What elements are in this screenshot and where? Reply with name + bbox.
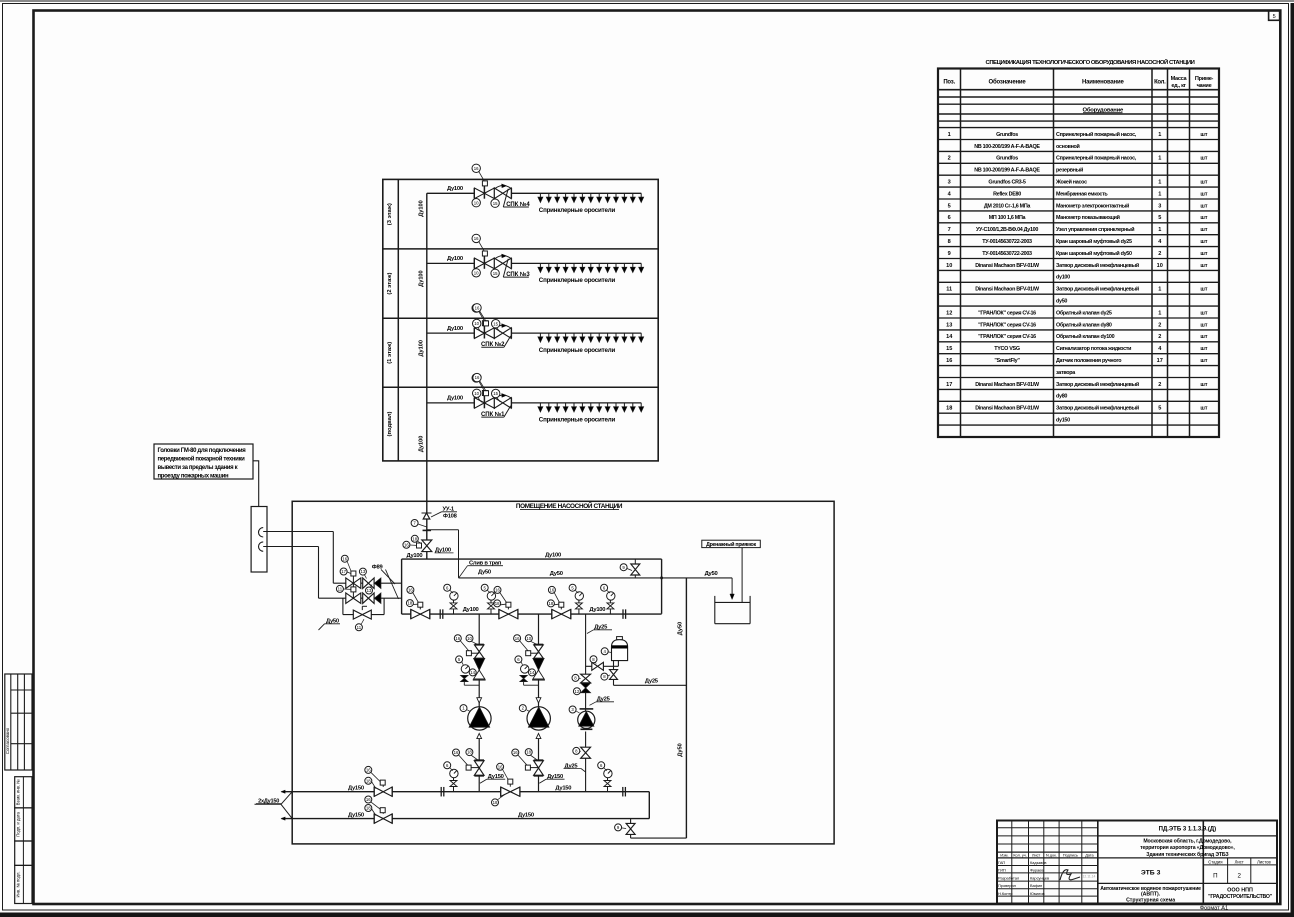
svg-text:17: 17 — [1157, 358, 1163, 364]
svg-text:Карсунцев: Карсунцев — [1030, 875, 1049, 880]
svg-text:10: 10 — [946, 263, 952, 269]
svg-text:(2 этаж): (2 этаж) — [387, 273, 393, 295]
svg-text:1: 1 — [1158, 132, 1161, 138]
svg-text:11: 11 — [357, 625, 362, 630]
svg-text:Ду25: Ду25 — [645, 678, 659, 684]
svg-text:шт: шт — [1200, 346, 1207, 352]
svg-text:Ду100: Ду100 — [419, 200, 425, 217]
svg-text:Взам. инв. №: Взам. инв. № — [16, 779, 21, 805]
svg-text:Ду100: Ду100 — [447, 256, 463, 262]
svg-text:шт: шт — [1200, 334, 1207, 340]
svg-text:ТУ-00145630722-2003: ТУ-00145630722-2003 — [982, 251, 1032, 257]
svg-text:Подп. и дата: Подп. и дата — [16, 811, 21, 836]
svg-text:ПД.ЭТБ 3 1.1.3.9.(Д): ПД.ЭТБ 3 1.1.3.9.(Д) — [1159, 827, 1216, 833]
svg-text:dy150: dy150 — [1056, 418, 1070, 424]
svg-text:2: 2 — [1158, 322, 1161, 328]
svg-text:Dinansi Machaon BFV-01/W: Dinansi Machaon BFV-01/W — [975, 287, 1040, 293]
svg-text:2: 2 — [1158, 251, 1161, 257]
svg-text:18: 18 — [495, 601, 500, 606]
svg-text:шт: шт — [1200, 203, 1207, 209]
svg-text:вывести за пределы здания к: вывести за пределы здания к — [158, 465, 238, 471]
svg-text:12.11.14: 12.11.14 — [1083, 875, 1096, 879]
svg-text:15: 15 — [493, 271, 498, 276]
svg-text:Ду100: Ду100 — [419, 340, 425, 357]
svg-text:"ГРАНЛОК" серия CV-16: "ГРАНЛОК" серия CV-16 — [978, 322, 1036, 328]
svg-text:10: 10 — [474, 270, 479, 275]
svg-text:ООО НПП: ООО НПП — [1227, 888, 1253, 894]
svg-text:Оборудование: Оборудование — [1082, 106, 1124, 113]
svg-text:Ду100: Ду100 — [407, 553, 423, 559]
svg-text:шт: шт — [1200, 156, 1207, 162]
svg-text:Обратный клапан dy100: Обратный клапан dy100 — [1056, 333, 1115, 340]
svg-text:Обозначение: Обозначение — [988, 78, 1026, 85]
svg-text:(1 этаж): (1 этаж) — [387, 342, 393, 364]
svg-text:Ф89: Ф89 — [372, 564, 384, 570]
svg-text:Спринклерный пожарный насос,: Спринклерный пожарный насос, — [1056, 155, 1137, 162]
svg-text:основной: основной — [1056, 143, 1080, 150]
svg-text:шт: шт — [1200, 322, 1207, 328]
svg-text:17: 17 — [946, 382, 952, 388]
svg-text:5: 5 — [1158, 406, 1161, 412]
svg-text:2: 2 — [1237, 872, 1241, 879]
svg-text:N док.: N док. — [1046, 853, 1057, 857]
svg-text:Ду50: Ду50 — [677, 743, 683, 756]
svg-text:Подпись: Подпись — [1063, 853, 1078, 857]
svg-text:Grundfos CR3-5: Grundfos CR3-5 — [988, 180, 1025, 186]
svg-text:16: 16 — [946, 358, 952, 364]
svg-text:Ду100: Ду100 — [447, 186, 463, 192]
svg-text:Мембранная емкость: Мембранная емкость — [1056, 190, 1108, 197]
svg-text:Головки ГМ-80 для подключения: Головки ГМ-80 для подключения — [158, 448, 247, 454]
svg-text:14: 14 — [470, 670, 475, 675]
svg-text:Ду50: Ду50 — [478, 569, 491, 575]
svg-text:10: 10 — [474, 321, 479, 326]
svg-text:Кол. уч.: Кол. уч. — [1013, 853, 1027, 857]
svg-text:18: 18 — [526, 750, 531, 755]
svg-text:16: 16 — [474, 236, 479, 241]
svg-text:Ду50: Ду50 — [677, 622, 683, 635]
svg-text:проезду пожарных машин: проезду пожарных машин — [158, 474, 229, 480]
svg-text:(подвал): (подвал) — [387, 411, 393, 436]
svg-text:шт: шт — [1200, 180, 1207, 186]
svg-text:П: П — [1213, 872, 1217, 879]
svg-text:16: 16 — [366, 797, 371, 802]
svg-text:9: 9 — [948, 251, 951, 257]
svg-text:Спринклерные оросители: Спринклерные оросители — [539, 277, 616, 284]
svg-text:Юматов: Юматов — [1030, 891, 1045, 896]
svg-text:14: 14 — [946, 334, 953, 340]
svg-text:11: 11 — [946, 287, 952, 293]
svg-text:Н.Контр: Н.Контр — [998, 891, 1012, 896]
svg-text:Наименование: Наименование — [1082, 79, 1124, 85]
svg-text:шт: шт — [1200, 287, 1207, 293]
svg-text:Ду100: Ду100 — [463, 607, 479, 613]
svg-text:Вафин: Вафин — [1030, 883, 1042, 888]
svg-text:шт: шт — [1200, 263, 1207, 269]
svg-text:передвижной пожарной техники: передвижной пожарной техники — [158, 455, 246, 462]
svg-text:16: 16 — [498, 764, 503, 769]
svg-text:16: 16 — [342, 556, 347, 561]
svg-text:15: 15 — [493, 321, 498, 326]
svg-text:12: 12 — [575, 689, 580, 694]
svg-text:NB 100-200/199 A-F-A-BAQE: NB 100-200/199 A-F-A-BAQE — [974, 168, 1040, 174]
svg-text:Фураев: Фураев — [1030, 868, 1043, 873]
svg-text:шт: шт — [1200, 358, 1207, 364]
svg-text:16: 16 — [404, 542, 409, 547]
svg-text:Стадия: Стадия — [1208, 859, 1222, 864]
svg-text:ДМ 2010 Сг-1,6 МПа: ДМ 2010 Сг-1,6 МПа — [984, 203, 1032, 209]
svg-text:Датчик положения ручного: Датчик положения ручного — [1056, 358, 1122, 364]
svg-text:Ду100: Ду100 — [545, 552, 561, 558]
svg-text:13: 13 — [361, 569, 366, 574]
svg-text:Dinansi Machaon BFV-01/W: Dinansi Machaon BFV-01/W — [975, 263, 1040, 269]
svg-text:ГИП: ГИП — [998, 868, 1006, 873]
svg-text:7: 7 — [948, 227, 951, 233]
svg-text:МП 100 1,6 МПа: МП 100 1,6 МПа — [989, 215, 1027, 221]
svg-text:ГАП: ГАП — [998, 860, 1005, 865]
svg-text:СПЕЦИФИКАЦИЯ ТЕХНОЛОГИЧЕСКОГО: СПЕЦИФИКАЦИЯ ТЕХНОЛОГИЧЕСКОГО ОБОРУДОВАН… — [986, 58, 1195, 66]
svg-text:1: 1 — [948, 132, 951, 138]
svg-text:УУ-С100/1,2В-ВФ.04 Ду100: УУ-С100/1,2В-ВФ.04 Ду100 — [976, 227, 1038, 233]
svg-text:11: 11 — [338, 587, 343, 592]
svg-text:15: 15 — [493, 201, 498, 206]
svg-text:1: 1 — [1158, 287, 1161, 293]
svg-text:Обратный клапан dy25: Обратный клапан dy25 — [1056, 309, 1112, 316]
svg-text:Спринклерный пожарный насос,: Спринклерный пожарный насос, — [1056, 131, 1137, 138]
svg-text:Согласовано: Согласовано — [5, 727, 10, 754]
svg-text:16: 16 — [454, 750, 459, 755]
svg-text:1: 1 — [1158, 310, 1161, 316]
svg-text:8: 8 — [948, 239, 951, 245]
svg-text:шт: шт — [1200, 310, 1207, 316]
svg-text:Кран шаровый муфтовый dy25: Кран шаровый муфтовый dy25 — [1056, 238, 1132, 245]
svg-text:(3 этаж): (3 этаж) — [387, 203, 393, 225]
svg-text:dy100: dy100 — [1056, 275, 1070, 281]
svg-text:15: 15 — [946, 346, 952, 352]
svg-text:Узел управления спринклерный: Узел управления спринклерный — [1056, 226, 1134, 233]
svg-text:NB 100-200/199 A-F-A-BAQE: NB 100-200/199 A-F-A-BAQE — [974, 144, 1040, 150]
svg-text:Инв. № подл.: Инв. № подл. — [16, 871, 21, 897]
svg-text:Обратный клапан dy80: Обратный клапан dy80 — [1056, 321, 1112, 328]
svg-text:18: 18 — [408, 601, 413, 606]
svg-text:Лист: Лист — [1235, 859, 1244, 864]
svg-text:Ф108: Ф108 — [443, 514, 458, 520]
svg-text:Grundfos: Grundfos — [996, 156, 1018, 162]
svg-text:Московская область, г.Домодедо: Московская область, г.Домодедово, — [1143, 837, 1232, 844]
svg-text:17: 17 — [341, 569, 346, 574]
svg-text:Изм.: Изм. — [1000, 853, 1008, 857]
svg-text:16: 16 — [475, 375, 480, 380]
svg-text:Reflex DE80: Reflex DE80 — [993, 191, 1021, 197]
svg-text:10: 10 — [474, 391, 479, 396]
svg-text:Поз.: Поз. — [943, 79, 955, 85]
svg-text:Затвор дисковый межфланцевый: Затвор дисковый межфланцевый — [1056, 286, 1139, 293]
svg-text:Ду150: Ду150 — [348, 812, 364, 818]
svg-text:шт: шт — [1200, 191, 1207, 197]
svg-text:Дата: Дата — [1085, 853, 1094, 857]
svg-text:Спринклерные оросители: Спринклерные оросители — [539, 417, 616, 424]
svg-text:Ду100: Ду100 — [419, 270, 425, 287]
svg-text:5: 5 — [948, 203, 951, 209]
svg-text:13: 13 — [946, 322, 952, 328]
svg-text:18: 18 — [549, 601, 554, 606]
svg-text:"ГРАНЛОК" серия CV-16: "ГРАНЛОК" серия CV-16 — [978, 310, 1036, 316]
svg-text:Листов: Листов — [1257, 859, 1271, 864]
svg-text:12: 12 — [946, 310, 952, 316]
svg-text:шт: шт — [1200, 406, 1207, 412]
svg-text:10: 10 — [1157, 263, 1163, 269]
svg-text:"ГРАДОСТРОИТЕЛЬСТВО": "ГРАДОСТРОИТЕЛЬСТВО" — [1208, 894, 1273, 900]
svg-text:Затвор дисковый межфланцевый: Затвор дисковый межфланцевый — [1056, 262, 1139, 269]
svg-text:18: 18 — [946, 406, 952, 412]
svg-text:16: 16 — [495, 588, 500, 593]
svg-text:Ду100: Ду100 — [447, 396, 463, 402]
svg-text:10: 10 — [467, 636, 472, 641]
svg-text:16: 16 — [455, 636, 460, 641]
svg-text:территория аэропорта «Домодедо: территория аэропорта «Домодедово», — [1140, 845, 1235, 851]
svg-text:18: 18 — [493, 800, 498, 805]
svg-text:6: 6 — [948, 215, 951, 221]
svg-text:1: 1 — [1158, 227, 1161, 233]
svg-text:2: 2 — [1158, 334, 1161, 340]
svg-text:2: 2 — [948, 156, 951, 162]
svg-text:ПОМЕЩЕНИЕ НАСОСНОЙ СТАНЦИИ: ПОМЕЩЕНИЕ НАСОСНОЙ СТАНЦИИ — [516, 501, 623, 510]
svg-text:dy50: dy50 — [1056, 299, 1067, 305]
svg-text:18: 18 — [366, 778, 371, 783]
svg-text:18: 18 — [366, 806, 371, 811]
svg-text:Ду150: Ду150 — [518, 812, 534, 818]
svg-text:5: 5 — [1158, 215, 1161, 221]
svg-text:Затвор дисковый межфланцевый: Затвор дисковый межфланцевый — [1056, 381, 1139, 388]
svg-text:"ГРАНЛОК" серия CV-16: "ГРАНЛОК" серия CV-16 — [978, 334, 1036, 340]
svg-text:Ду150: Ду150 — [555, 785, 571, 791]
svg-text:Спринклерные оросители: Спринклерные оросители — [539, 207, 616, 214]
svg-text:Grundfos: Grundfos — [996, 132, 1018, 138]
svg-text:Жокей насос: Жокей насос — [1055, 179, 1087, 186]
svg-text:2: 2 — [1158, 382, 1161, 388]
svg-text:Ду50: Ду50 — [550, 571, 563, 577]
svg-text:ЭТБ 3: ЭТБ 3 — [1141, 870, 1161, 877]
svg-text:шт: шт — [1200, 132, 1207, 138]
svg-text:Кран шаровый муфтовый dy50: Кран шаровый муфтовый dy50 — [1056, 250, 1132, 257]
svg-text:Ду100: Ду100 — [419, 436, 425, 453]
svg-text:13: 13 — [367, 588, 372, 593]
svg-text:Масса: Масса — [1171, 76, 1188, 82]
svg-text:резервный: резервный — [1056, 167, 1083, 174]
svg-text:16: 16 — [515, 636, 520, 641]
svg-text:Лист: Лист — [1032, 853, 1041, 857]
svg-text:Структурная схема: Структурная схема — [1126, 898, 1175, 904]
svg-text:Приме-: Приме- — [1195, 76, 1214, 82]
svg-text:TYCO VSG: TYCO VSG — [994, 346, 1020, 352]
svg-text:Dinansi Machaon BFV-01/W: Dinansi Machaon BFV-01/W — [975, 406, 1040, 412]
svg-text:шт: шт — [1200, 215, 1207, 221]
svg-text:шт: шт — [1200, 239, 1207, 245]
svg-text:1: 1 — [1158, 180, 1161, 186]
svg-text:Dinansi Machaon BFV-01/W: Dinansi Machaon BFV-01/W — [975, 382, 1040, 388]
svg-text:3: 3 — [1158, 203, 1161, 209]
svg-text:dy80: dy80 — [1056, 394, 1067, 400]
svg-text:Ду50: Ду50 — [705, 571, 718, 577]
svg-text:Ду150: Ду150 — [348, 785, 364, 791]
svg-text:Кадымов: Кадымов — [1030, 860, 1046, 865]
svg-text:Манометр показывающий: Манометр показывающий — [1056, 214, 1120, 221]
svg-text:18: 18 — [467, 750, 472, 755]
svg-text:чание: чание — [1197, 83, 1212, 89]
svg-text:10: 10 — [526, 636, 531, 641]
svg-text:16: 16 — [475, 305, 480, 310]
svg-text:1: 1 — [1158, 156, 1161, 162]
svg-text:10: 10 — [474, 200, 479, 205]
svg-text:Манометр электроконтактный: Манометр электроконтактный — [1056, 202, 1129, 209]
svg-text:шт: шт — [1200, 382, 1207, 388]
svg-text:16: 16 — [550, 588, 555, 593]
svg-text:18: 18 — [412, 536, 417, 541]
svg-text:Ду100: Ду100 — [589, 607, 605, 613]
svg-text:Кол.: Кол. — [1154, 79, 1166, 85]
svg-text:ТУ-00145630722-2003: ТУ-00145630722-2003 — [982, 239, 1032, 245]
svg-text:шт: шт — [1200, 227, 1207, 233]
svg-text:шт: шт — [1200, 251, 1207, 257]
svg-text:16: 16 — [366, 768, 371, 773]
svg-text:ед., кг: ед., кг — [1171, 83, 1186, 89]
svg-text:Формат А1: Формат А1 — [1200, 905, 1228, 911]
svg-text:16: 16 — [474, 166, 479, 171]
svg-text:16: 16 — [408, 588, 413, 593]
svg-text:Затвор дисковый межфланцевый: Затвор дисковый межфланцевый — [1056, 405, 1139, 412]
svg-text:затвора: затвора — [1056, 370, 1076, 376]
svg-text:1: 1 — [1158, 191, 1161, 197]
svg-text:Проверил: Проверил — [998, 883, 1016, 888]
svg-text:Ду100: Ду100 — [447, 326, 463, 332]
svg-text:Здания технических бригад ЭТБЗ: Здания технических бригад ЭТБЗ — [1146, 851, 1229, 858]
svg-text:Спринклерные оросители: Спринклерные оросители — [539, 347, 616, 354]
svg-text:"SmartFly": "SmartFly" — [994, 358, 1020, 364]
svg-text:16: 16 — [513, 750, 518, 755]
svg-text:3: 3 — [948, 180, 951, 186]
svg-text:15: 15 — [493, 391, 498, 396]
svg-text:5: 5 — [1273, 14, 1276, 20]
svg-text:Разработал: Разработал — [998, 875, 1019, 880]
svg-text:Дренажный приямок: Дренажный приямок — [706, 541, 756, 548]
svg-text:14: 14 — [530, 670, 535, 675]
svg-text:Сигнализатор потока жидкости: Сигнализатор потока жидкости — [1056, 346, 1131, 352]
